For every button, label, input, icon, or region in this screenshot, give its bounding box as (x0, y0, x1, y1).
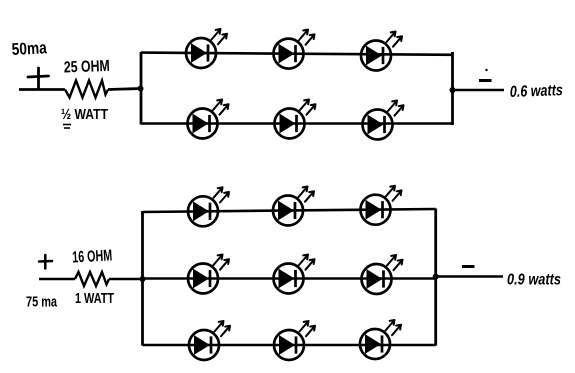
LED D11 (274, 255, 315, 294)
svg-text:0.6 watts: 0.6 watts (510, 82, 564, 101)
wire: top circuit branch 2 (141, 122, 453, 125)
svg-text:16 OHM: 16 OHM (72, 247, 113, 266)
svg-text:75 ma: 75 ma (26, 294, 57, 311)
LED D2 (274, 30, 315, 69)
LED D5 (275, 100, 316, 139)
svg-text:50ma: 50ma (11, 38, 47, 59)
wire: top output lead (453, 89, 505, 92)
wire: top circuit branch 1 (141, 53, 453, 55)
wire: top input lead (19, 88, 65, 91)
wire: left bus of bottom circuit (141, 211, 144, 346)
wire: bottom input lead (39, 278, 75, 281)
LED D12 (362, 255, 403, 294)
LED D15 (360, 320, 401, 359)
wire: resistor to node C (109, 278, 143, 281)
node D junction dot (433, 274, 439, 280)
node A junction dot (138, 86, 144, 92)
svg-text:1 WATT: 1 WATT (75, 290, 114, 307)
wire: resistor to node A (108, 89, 141, 90)
LED D8 (273, 187, 314, 226)
wire: bottom circuit branch 1 (143, 209, 436, 212)
wire: right bus of top circuit (451, 52, 454, 125)
node C junction dot (140, 276, 146, 282)
minus terminal (top circuit) (479, 79, 492, 82)
plus terminal (top circuit) (28, 68, 49, 88)
wire: bottom circuit branch 2 (143, 277, 436, 280)
wire: bottom output lead (436, 275, 503, 278)
svg-text:½ WATT: ½ WATT (61, 106, 108, 123)
LED D13 (189, 321, 230, 360)
LED D1 (186, 29, 227, 68)
LED D7 (188, 187, 229, 226)
wire: bottom circuit branch 3 (143, 344, 436, 347)
node B junction dot (450, 87, 456, 93)
wire: left bus of top circuit (140, 52, 143, 125)
LED D3 (361, 32, 402, 71)
plus terminal (bottom circuit) (39, 255, 52, 269)
resistor R2 (16 ohm) (75, 272, 109, 286)
LED D10 (188, 255, 229, 294)
wire: right bus of bottom circuit (434, 209, 437, 346)
svg-text:25 OHM: 25 OHM (64, 58, 111, 77)
resistor R1 (25 ohm) (65, 81, 108, 98)
LED D4 (188, 100, 229, 139)
equals mark under 1/2 watt (63, 125, 71, 129)
minus terminal (bottom circuit) (462, 265, 475, 268)
stray pen dot above minus (485, 69, 487, 71)
LED D14 (274, 321, 315, 360)
LED D6 (363, 101, 404, 140)
LED D9 (361, 186, 402, 225)
svg-text:0.9 watts: 0.9 watts (507, 272, 561, 289)
